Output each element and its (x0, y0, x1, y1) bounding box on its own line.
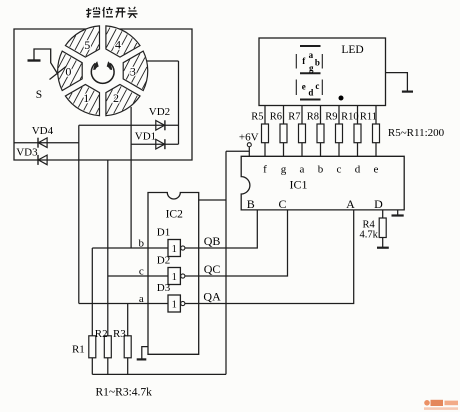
wire: node b vertical (130, 107, 132, 248)
resistor R8 label (307, 112, 319, 123)
resistor R1 (89, 336, 96, 375)
switch wafer segment 1 (65, 85, 99, 116)
wire: LED to resistor R9 (338, 106, 340, 125)
wire: +6V vertical down to bottom rail (225, 151, 227, 374)
diode VD2 label (149, 106, 170, 118)
wire: input a row (79, 303, 168, 305)
diode VD2 (156, 120, 165, 130)
svg-text:0: 0 (65, 64, 71, 78)
wire: VD4 horizontal (14, 142, 79, 144)
svg-text:R10: R10 (341, 112, 359, 123)
switch wafer segment 5 (65, 26, 99, 57)
wire: node c vertical (switch contact down to R2) (107, 160, 109, 337)
resistor R7 (299, 124, 306, 143)
svg-text:d: d (355, 163, 361, 175)
resistor R2 label (95, 328, 108, 340)
gate D1 label (157, 227, 170, 239)
svg-text:LED: LED (341, 44, 363, 56)
wire: resistor R7 to IC1 (301, 143, 303, 157)
resistor R7 label (288, 112, 300, 123)
svg-text:D2: D2 (157, 255, 170, 267)
svg-text:R1: R1 (72, 344, 85, 356)
wire: LED to resistor R5 (264, 106, 266, 125)
svg-text:B: B (247, 197, 255, 211)
resistor R5 (262, 124, 269, 143)
wire: +6V feed to IC2 (199, 199, 226, 201)
svg-text:D1: D1 (157, 227, 170, 239)
resistor R4 label (360, 220, 379, 241)
svg-text:e: e (302, 81, 306, 91)
svg-text:QC: QC (204, 262, 221, 276)
svg-text:1: 1 (172, 272, 177, 283)
svg-text:1: 1 (172, 299, 177, 310)
net QB label (204, 234, 221, 248)
inverter gate D1 (168, 240, 185, 257)
svg-text:1: 1 (172, 244, 177, 255)
svg-text:c: c (337, 163, 342, 175)
gate D3 label (157, 282, 171, 294)
svg-text:IC2: IC2 (166, 209, 184, 221)
wire: LED to resistor R8 (320, 106, 322, 125)
wire: resistor R9 to IC1 (338, 143, 340, 157)
wire: node b down to R1 (91, 248, 93, 336)
svg-text:R5~R11:200: R5~R11:200 (388, 127, 445, 139)
wire: resistor R8 to IC1 (320, 143, 322, 157)
wire: LED to resistor R11 (375, 106, 377, 125)
svg-text:b: b (318, 163, 324, 175)
wire: resistor R5 to IC1 (264, 143, 266, 157)
svg-text:QB: QB (204, 234, 221, 248)
switch S wiper arm (28, 49, 67, 80)
wire: bottom +6V rail (92, 373, 226, 375)
svg-text:4: 4 (115, 38, 121, 52)
seven-segment letter labels (302, 50, 320, 98)
diode VD1 label (135, 131, 156, 143)
svg-text:VD4: VD4 (32, 125, 54, 137)
resistor R10 (354, 124, 361, 143)
resistor R2 (104, 336, 111, 375)
wire: IC2 ground hook (142, 347, 148, 360)
wire: IC1 pin D to R4 (382, 210, 384, 218)
svg-text:a: a (300, 163, 305, 175)
svg-text:g: g (309, 63, 314, 73)
wire: input b row (92, 247, 168, 249)
label R1~R3:4.7k (96, 387, 153, 399)
inverter array IC2 box with notch (148, 193, 199, 355)
svg-text:2: 2 (113, 91, 119, 105)
+6V supply terminal (247, 143, 251, 147)
inverter gate D2 (168, 268, 185, 285)
gate D2 label (157, 255, 170, 267)
label R5~R11:200 (388, 127, 445, 139)
resistor R3 (124, 336, 131, 375)
resistor R3 label (113, 328, 126, 340)
wire: LED to resistor R7 (301, 106, 303, 125)
resistor R5 label (251, 112, 263, 123)
node a label (139, 293, 144, 305)
wire: resistor R6 to IC1 (283, 143, 285, 157)
diode VD4 (38, 138, 47, 148)
diode VD4 label (32, 125, 54, 137)
inverter gate D3 (168, 295, 185, 312)
svg-text:g: g (281, 163, 287, 175)
svg-text:R8: R8 (307, 112, 319, 123)
wire: contact plate horizontal (node b top / VD2 anode) (79, 124, 179, 126)
wire: IC1 pin A down-left to D3 output (185, 210, 354, 304)
LED decimal point (339, 96, 344, 101)
svg-text:VD3: VD3 (16, 146, 38, 158)
diode VD3 (inline on box bottom edge) (38, 155, 47, 165)
gate D2 symbol 1 (172, 272, 177, 283)
wire: node a vertical from contact plate (78, 125, 80, 303)
IC1 top pin labels f g a b c d e (263, 163, 378, 175)
resistor R11 (373, 124, 380, 143)
svg-text:C: C (278, 197, 286, 211)
net QC label (204, 262, 221, 276)
switch wafer segment 4 (106, 26, 140, 57)
wire: VD1 horizontal (131, 143, 178, 145)
title label: gear position switch (vector strokes) (86, 7, 138, 18)
svg-text:R1~R3:4.7k: R1~R3:4.7k (96, 387, 153, 399)
wire: IC1 pin C down-left to D2 output (185, 210, 288, 276)
svg-text:e: e (374, 163, 379, 175)
+6V label (239, 132, 259, 144)
resistor R1 label (72, 344, 85, 356)
svg-text:D3: D3 (157, 282, 171, 294)
switch S label (36, 89, 42, 101)
svg-text:a: a (139, 293, 144, 305)
switch S enclosure box (top edge interrupted by wafer) (14, 29, 192, 160)
svg-text:3: 3 (130, 65, 136, 79)
svg-text:VD1: VD1 (135, 131, 156, 143)
svg-text:R11: R11 (360, 112, 377, 123)
wire: LED to resistor R6 (283, 106, 285, 125)
resistor R6 label (270, 112, 282, 123)
node b label (139, 238, 145, 250)
wire: resistor R11 to IC1 (375, 143, 377, 157)
svg-text:R7: R7 (288, 112, 300, 123)
wire: +6V terminal down into IC1 (248, 147, 250, 157)
LED label (341, 44, 363, 56)
svg-text:D: D (374, 197, 383, 211)
wire: node a down to R3 (127, 304, 129, 337)
svg-text:a: a (309, 50, 314, 60)
wire: R4 to ground (382, 238, 384, 248)
svg-text:c: c (315, 81, 319, 91)
resistor R10 label (341, 112, 359, 123)
svg-text:4.7k: 4.7k (360, 229, 379, 240)
resistor R11 label (360, 112, 377, 123)
ground (LED) (402, 90, 413, 92)
node c label (139, 266, 144, 278)
IC1 bottom pin labels B C A D (247, 197, 383, 211)
ground (below R4) (377, 247, 389, 249)
resistor R9 (336, 124, 343, 143)
svg-text:R9: R9 (325, 112, 337, 123)
wire: LED to ground (386, 73, 408, 92)
watermark logo (bottom right) (424, 400, 458, 410)
wire: segment 3 to right (147, 60, 179, 62)
svg-text:R3: R3 (113, 328, 126, 340)
wire: resistor R10 to IC1 (357, 143, 359, 157)
svg-text:VD2: VD2 (149, 106, 170, 118)
svg-text:R2: R2 (95, 328, 108, 340)
LED display box (259, 38, 386, 106)
net QA label (203, 290, 221, 304)
IC2 label (166, 209, 184, 221)
svg-text:R5: R5 (251, 112, 263, 123)
svg-text:IC1: IC1 (290, 178, 308, 192)
svg-text:b: b (315, 58, 320, 68)
resistor R6 (280, 124, 287, 143)
svg-text:A: A (346, 197, 355, 211)
svg-text:d: d (308, 88, 313, 98)
switch wafer segment 2 (106, 85, 140, 116)
switch wafer segment 0 (58, 51, 83, 90)
wire: IC1 pin B down-left to D1 output (185, 210, 257, 248)
ground (IC2) (137, 358, 147, 360)
wire: right vertical (segment 3 down to diodes) (178, 61, 180, 144)
gate D1 symbol 1 (172, 244, 177, 255)
switch wafer segment 3 (123, 51, 148, 90)
gate D3 symbol 1 (172, 299, 177, 310)
svg-text:+6V: +6V (239, 132, 259, 144)
svg-text:b: b (139, 238, 145, 250)
svg-text:S: S (36, 89, 42, 101)
svg-text:5: 5 (84, 38, 90, 52)
IC1 label (290, 178, 308, 192)
wire: +6V branch left (226, 150, 249, 152)
wire: LED to resistor R10 (357, 106, 359, 125)
resistor R4 (379, 218, 386, 238)
diode VD1 (156, 139, 165, 149)
op-amp/driver IC1 box with notch (241, 156, 404, 210)
ground (IC1) (392, 214, 404, 216)
svg-text:QA: QA (203, 290, 221, 304)
svg-text:R6: R6 (270, 112, 282, 123)
resistor R8 (317, 124, 324, 143)
wire: input c row (108, 275, 168, 277)
diode VD3 label (16, 146, 38, 158)
svg-text:1: 1 (83, 91, 89, 105)
svg-text:f: f (263, 163, 267, 175)
svg-text:c: c (139, 266, 144, 278)
wire: IC1 ground stub (397, 210, 399, 215)
resistor R9 label (325, 112, 337, 123)
seven-segment glyph (296, 46, 322, 100)
rotor contact (inner circle with rotation arrows) (91, 61, 114, 83)
